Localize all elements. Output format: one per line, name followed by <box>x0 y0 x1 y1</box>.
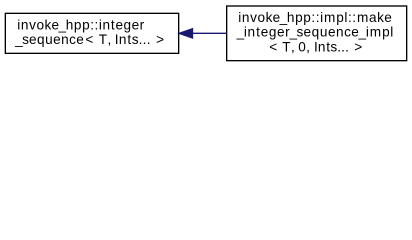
svg-text:invoke_hpp::impl::make: invoke_hpp::impl::make <box>238 10 391 25</box>
svg-text:invoke_hpp::integer: invoke_hpp::integer <box>17 17 144 32</box>
svg-text:_integer_sequence_impl: _integer_sequence_impl <box>236 25 394 40</box>
svg-text:_sequence< T, Ints... >: _sequence< T, Ints... > <box>14 32 164 47</box>
svg-text:< T, 0, Ints... >: < T, 0, Ints... > <box>269 39 362 54</box>
